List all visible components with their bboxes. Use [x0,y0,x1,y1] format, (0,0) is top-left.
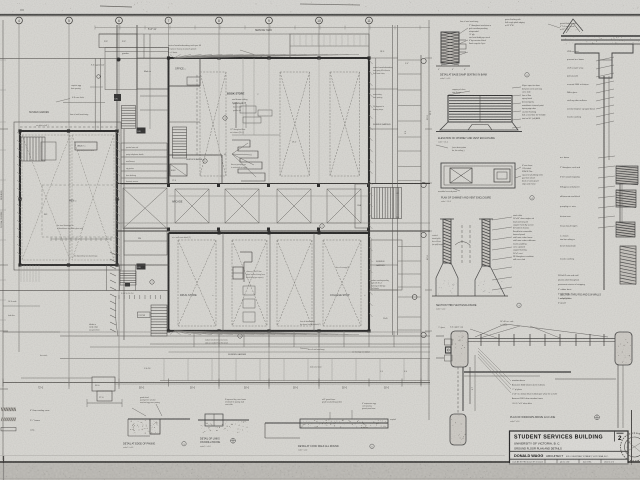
window plan lower pillar [450,414,466,445]
stair left wing [21,137,45,161]
top dimension chain [95,27,430,29]
steps dim line 2 [87,402,122,404]
bottom margin strip [0,463,640,480]
wing rooflight panel west [22,135,70,260]
top margin strip [0,0,640,14]
arcade ceiling panel 3 [225,189,259,223]
beam section [575,44,633,78]
walkway verticals [106,265,108,291]
wing closet [41,142,56,160]
bottom dimension line [3,382,430,384]
detail of links drawing [198,419,249,421]
fixture leader fan [232,143,248,154]
chair room [355,184,369,228]
tick row below walkway [118,295,120,299]
DN box upper [114,94,121,101]
mail chute room [137,48,169,90]
architect stamp [621,433,640,461]
corridor mid east wall [123,129,125,340]
window head hatched [616,166,638,184]
arcade south edge [116,230,430,232]
title block outer box [510,431,629,464]
bank seat base line [436,65,470,67]
terrace step line 1 [21,264,169,266]
lower margin faint lines [0,455,505,457]
terrace step hatch bottom left [20,265,22,282]
left dimension line [2,20,4,460]
walkway south edge [0,290,169,292]
rooflight panel college [323,240,361,326]
service yard enclosure [290,34,369,58]
plan circled markers [223,116,227,120]
chimney plan outer rect [441,163,515,188]
wall section line [603,76,605,290]
wall section mid hatched [620,246,636,284]
shop partition 3 [313,233,315,331]
stair upper corridor [122,106,136,129]
window plan mullions [480,334,482,346]
main block exterior hatch [369,60,373,64]
top border line [0,14,640,16]
vent stack box [233,267,243,279]
grid line C [118,24,120,389]
steps block south-west [92,377,115,391]
window plan band [468,338,615,340]
chimney elevation louvre box [448,96,512,123]
rooflight panel drug 3 [277,240,312,326]
book store counters [235,102,237,128]
ramp lines left [18,332,20,352]
right dimension line [428,20,430,420]
chimney plan flue box [450,168,472,183]
book store rooflight panel 1 [200,72,226,176]
stair east terrace [372,188,402,219]
title block row dividers [510,450,629,452]
window plan corner wall [462,367,464,411]
window plan dim line [474,355,476,411]
sunken garden wall around wing [14,122,121,270]
grid line H [368,24,370,58]
window sill hatched [616,222,635,237]
corridor cells below arcade [124,228,167,255]
title block bottom row separators [544,459,546,464]
sheet number cell [614,431,616,442]
chimney plan vent box [494,169,510,182]
main block east wall [368,58,370,331]
shop partition 1 [222,233,224,331]
grid line B [68,24,70,389]
left wing outline [20,131,117,265]
grid line D [168,24,170,58]
corridor east wall [136,25,138,129]
sunken garden east [371,240,402,290]
west approach line [0,57,168,59]
grid bubble 10 [316,17,323,24]
arcade ceiling panel 2 [175,189,209,223]
wing rooflight panel east [72,135,114,260]
shop counter steps [240,251,252,253]
wing inner dashed zone [42,185,116,237]
arcade south wall heavy [169,232,370,234]
grid bubble 5 [66,17,73,24]
grid bubble 11 [366,17,373,24]
book store rooflight panel 3 [330,72,360,176]
grid bubble 4 [16,17,23,24]
column at entry [117,58,121,62]
bank seat detail hatched block [441,32,459,63]
shop partition 2 [269,233,271,331]
east strip bubbles [421,58,426,63]
hatched wall left of stair [110,252,116,255]
roof gable detail [563,19,583,34]
DN box lower [137,264,146,270]
service yard hatch [293,34,295,46]
east dimension ladder rungs [398,59,421,61]
window plan right pillar [615,332,632,365]
grid bubble 9 [266,17,273,24]
rooflight panel drug 2 [232,240,267,326]
vent section flue centre [461,225,463,263]
book store west wall [168,58,170,184]
grid bubble 8 [216,17,223,24]
right wall below pillar [617,365,619,428]
corridor west wall [116,25,118,129]
window plan left pillar [451,331,468,367]
legend row 3 [1,428,16,431]
stair book store [173,127,187,158]
grid line A [18,24,20,332]
book store stepped fixtures [232,140,265,181]
drug store west wall [168,233,170,331]
roof edge dashed vertical [196,75,198,155]
entry vestibule [99,34,137,48]
grid bubble 6 [116,17,123,24]
grid bubble 7 [165,17,172,24]
stair south of wing [120,271,136,285]
legend row 2 [1,418,16,422]
porter room [138,312,151,318]
vent section cap [440,218,454,220]
east terrace walk lines [375,58,377,183]
book store rooflight panel 2 [280,72,310,176]
vent section right wall [482,219,490,266]
arcade north edge [116,183,430,185]
arcade columns [167,184,170,187]
main block columns bottom [167,329,170,332]
vent section flared base [436,263,458,296]
west rooms extra lines [140,95,169,97]
bottom border line [0,461,640,463]
arcade ceiling panel 5 [327,189,361,223]
book store north wall [169,57,370,59]
path curve [115,296,118,336]
corridor mid west wall [115,131,117,265]
elevator room [170,164,187,176]
terrace extra lines [116,264,169,266]
paving grid verticals [163,359,165,381]
rooflight panel drug 1 [178,240,216,326]
top dimension line [99,33,290,35]
book store counters extra [245,104,247,128]
book store aisle lines [242,58,244,135]
window plan wall hatch block [445,339,453,345]
chimney elevation base [440,122,518,130]
DN box mid [137,128,146,134]
DN box walkway [125,283,130,287]
glass line [619,184,621,222]
roof slab lines [561,35,640,37]
legend row 1 [1,408,16,412]
arcade ceiling panel 1 [123,188,167,229]
bottom left corner mark [3,456,5,480]
service area rooms [169,154,223,156]
office room [199,58,201,86]
office closets [187,77,200,85]
left wing corner columns [18,129,21,132]
stair lower corridor [151,305,167,336]
detail at conc walk drawing [265,422,388,424]
bottom-left wing exterior hatch [17,132,21,136]
arcade mid lines [116,222,430,224]
terrace south lines [60,335,430,337]
book store inner columns [218,58,220,184]
main block south wall [169,330,370,332]
grid line F [268,24,270,58]
grid line G [318,24,320,58]
entry garden court [105,48,137,90]
stall ticks [50,238,52,242]
detail at edge of paving drawing [128,418,190,420]
cell block lines [121,142,167,144]
left margin ticks [0,59,6,61]
sheet right border line [631,410,633,465]
vault room [75,142,97,150]
long window leaders [505,324,608,337]
terrace bay ticks [193,331,195,347]
window plan vertical band [457,367,459,414]
main block columns top [167,56,170,59]
arcade ceiling panel 4 [277,189,311,223]
vent section left wall [443,219,451,263]
grid line E [218,24,220,58]
